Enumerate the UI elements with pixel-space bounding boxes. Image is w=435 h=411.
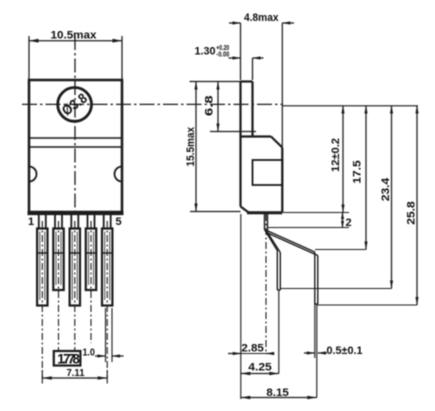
svg-text:25.8: 25.8 xyxy=(405,201,417,225)
svg-text:4.8max: 4.8max xyxy=(244,12,279,24)
svg-text:2: 2 xyxy=(346,217,352,229)
svg-text:17.5: 17.5 xyxy=(352,160,364,184)
svg-text:1.778: 1.778 xyxy=(57,352,80,367)
svg-text:10.5max: 10.5max xyxy=(51,30,98,42)
svg-text:1.30: 1.30 xyxy=(195,45,216,57)
svg-text:8.15: 8.15 xyxy=(266,387,289,399)
svg-text:12±0.2: 12±0.2 xyxy=(330,138,342,172)
svg-text:-0.00: -0.00 xyxy=(216,52,229,59)
svg-text:5: 5 xyxy=(115,216,121,228)
svg-text:0.5±0.1: 0.5±0.1 xyxy=(327,345,363,357)
svg-text:23.4: 23.4 xyxy=(380,177,392,201)
svg-text:4.25: 4.25 xyxy=(248,361,272,373)
svg-text:2.85: 2.85 xyxy=(241,343,264,355)
svg-text:15.5max: 15.5max xyxy=(185,126,197,166)
svg-text:6.8: 6.8 xyxy=(204,95,216,116)
svg-text:1.0: 1.0 xyxy=(82,347,95,359)
svg-text:7.11: 7.11 xyxy=(67,367,85,379)
svg-text:1: 1 xyxy=(28,216,34,228)
